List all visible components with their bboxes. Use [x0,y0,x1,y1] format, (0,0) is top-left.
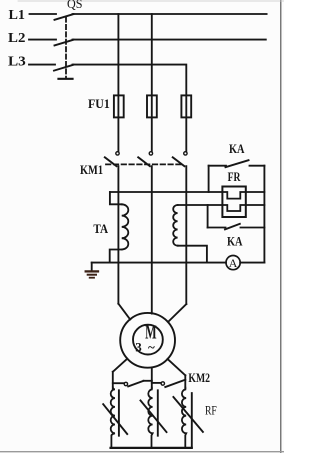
svg-text:L3: L3 [8,54,26,69]
svg-text:FU1: FU1 [88,96,110,111]
wire TA coil2 bottom stub [178,246,207,263]
switch QS handle bar [59,78,73,80]
rheostat RF coil 1 arrow [103,404,127,434]
svg-text:FR: FR [228,169,241,184]
wire node1 vertical [112,372,114,389]
wire KA lower left branch up to feed2 [207,205,209,228]
rheostat RF coil 2 arrow [141,401,167,433]
svg-text:A: A [229,256,238,270]
motor M1 inner circle [133,325,163,355]
svg-text:KA: KA [229,141,245,156]
wire L2 left [29,39,56,41]
rheostat RF coil 1 partner line [118,390,120,435]
rheostat RF coil 1 [111,388,115,448]
ground [86,263,98,278]
svg-text:KM2: KM2 [188,371,210,385]
wire L3 right to elbow [73,65,187,152]
wire FR feed 2 (from TA coil2 top) with dip [178,205,265,211]
wire KA upper left branch down to feed1 [208,166,210,192]
wire ammeter line [92,262,226,264]
svg-text:KA: KA [227,234,243,249]
scan border top edge [18,0,284,2]
fuse FU1-a [114,95,124,117]
switch QS pole 2 blade [55,40,74,46]
motor M1 leads bottom [113,359,186,376]
wire right rail [263,166,265,263]
rheostat RF coil 3 [182,388,186,448]
wire L3 left [29,64,55,66]
contactor KM1 pole 2 [138,152,152,167]
svg-text:TA: TA [93,221,108,236]
wire FR feed 1 (from TA coil1 top) with dip [110,192,265,199]
contactor KM1 pole 3 [173,152,187,167]
contactor KM1 pole 1 [105,152,119,167]
svg-text:RF: RF [205,404,217,418]
wire L1 right [73,13,267,15]
relay contact KA upper [209,160,265,167]
rheostat RF coil 2 partner line [157,390,159,435]
switch QS pole 1 blade [55,14,74,20]
wire phase B drop from L1 [151,14,153,152]
motor M1 outer circle [120,313,175,368]
wire L1 left [30,13,57,15]
wire phase A KM1 to motor [117,166,119,304]
wire phase C KM1 to motor [185,166,187,304]
scan border bottom edge [0,451,284,453]
contactor KM2 pole 2 [152,380,186,387]
rheostat RF coil 3 partner line [191,393,193,447]
wire L2 right [73,39,266,41]
transformer TA coil 1 [122,204,129,249]
fuse FU1-c [181,95,191,117]
contactor KM2 pole 1 [113,381,152,387]
ammeter A [226,256,240,270]
rheostat RF coil 3 arrow [173,397,203,432]
svg-text:L2: L2 [8,31,25,46]
wire node3 vertical [184,375,186,388]
wire bottom bus [111,447,192,449]
wire phase A drop from L1 [117,14,119,152]
fuse FU1-b [147,95,157,117]
wire ammeter to rail [240,262,264,264]
transformer TA coil 2 [173,205,177,246]
svg-text:QS: QS [67,0,83,11]
svg-text:KM1: KM1 [80,162,103,177]
wire node2 vertical [151,368,153,389]
contactor KM1 linkage dashed line [106,163,182,165]
svg-text:L1: L1 [9,8,26,23]
scan border right edge [280,0,282,453]
thermal relay FR heater box [222,187,245,218]
switch QS pole 3 blade [54,65,74,71]
wire TA coil1 bottom stub [110,250,122,263]
wire phase B KM1 to motor [151,166,153,313]
relay contact KA lower [208,224,265,230]
rheostat RF coil 2 [148,388,152,448]
switch QS linkage dashed line [65,18,67,79]
motor M1 leads top [118,304,186,322]
wire TA coil1 top stub [110,192,122,204]
